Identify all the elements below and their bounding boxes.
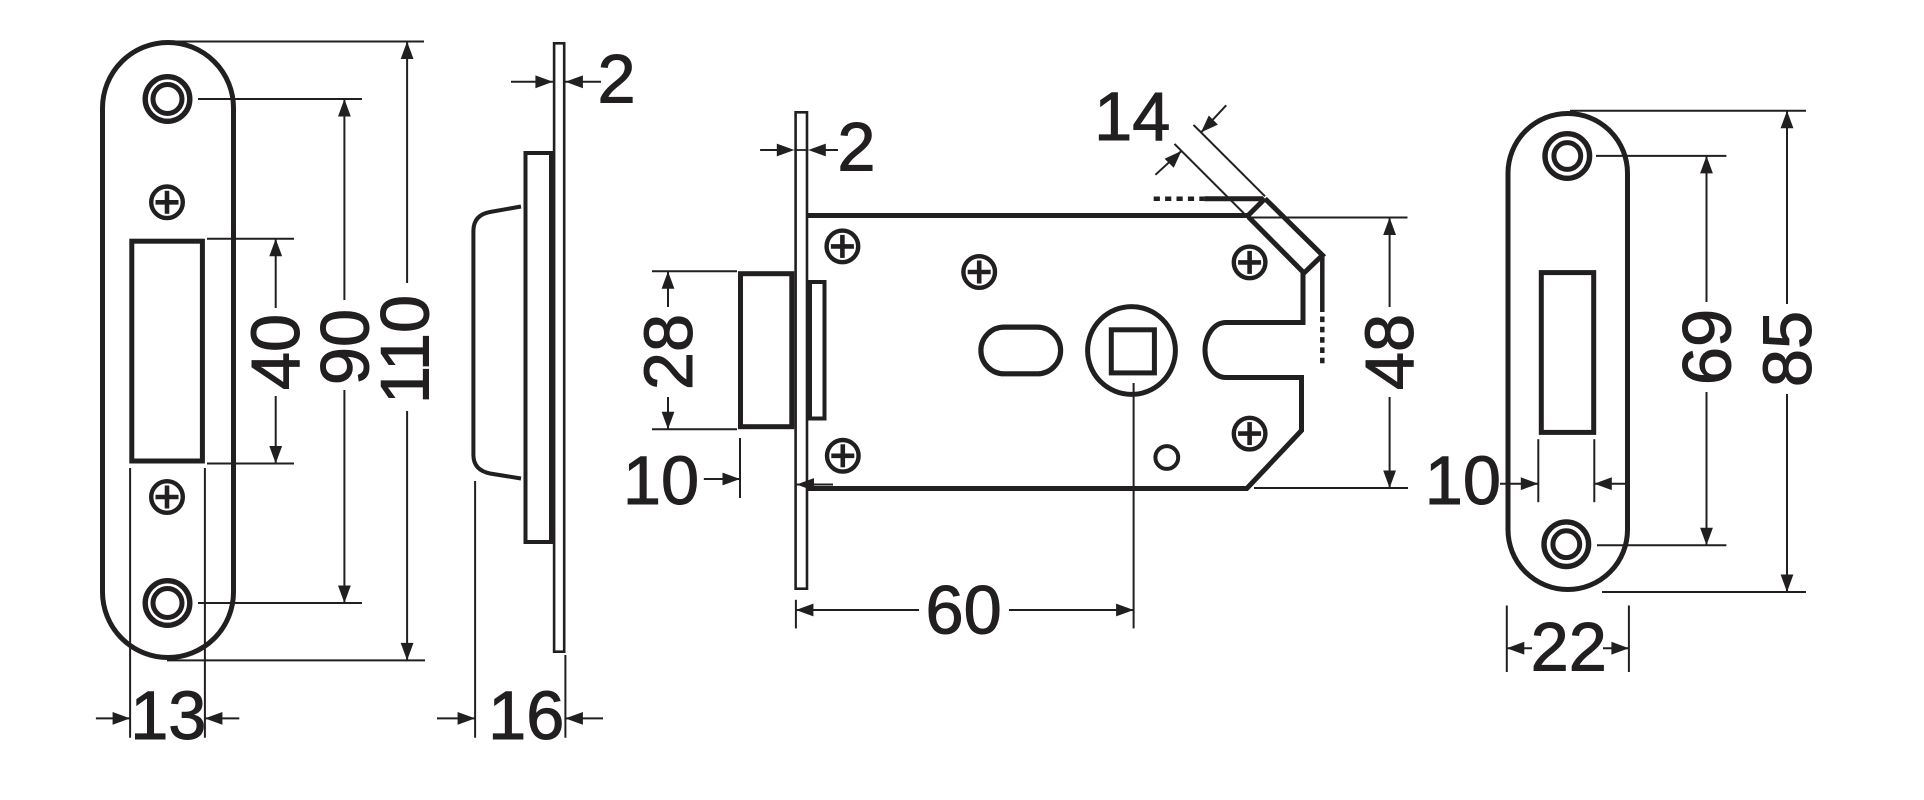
svg-text:48: 48 [1351,314,1428,390]
svg-text:2: 2 [837,109,875,186]
svg-text:10: 10 [623,442,699,519]
svg-text:22: 22 [1531,609,1607,686]
svg-text:40: 40 [237,314,314,390]
svg-text:69: 69 [1669,309,1746,385]
svg-text:14: 14 [1094,78,1170,155]
svg-text:28: 28 [630,314,707,390]
svg-text:60: 60 [925,572,1001,649]
svg-text:2: 2 [597,41,635,118]
svg-text:85: 85 [1749,311,1826,387]
svg-text:10: 10 [1425,442,1501,519]
svg-text:13: 13 [130,677,206,754]
svg-text:90: 90 [307,309,384,385]
svg-text:16: 16 [488,677,564,754]
